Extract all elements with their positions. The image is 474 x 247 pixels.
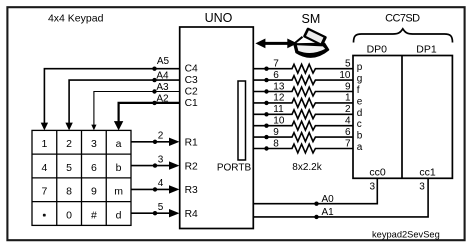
- svg-text:A3: A3: [156, 82, 169, 93]
- svg-text:7: 7: [345, 138, 351, 149]
- svg-text:8: 8: [273, 138, 279, 149]
- svg-text:10: 10: [273, 116, 285, 127]
- wire A0 (UNO to display cc0): [253, 178, 377, 206]
- svg-text:b: b: [116, 162, 122, 174]
- svg-text:0: 0: [66, 209, 72, 221]
- svg-text:a: a: [357, 142, 363, 153]
- svg-text:A5: A5: [157, 56, 170, 67]
- wire UNO pin7 / resistor 1 / display pin 5 (segment p): [253, 59, 353, 74]
- svg-text:DP1: DP1: [416, 43, 437, 55]
- wire A5 (UNO C4 to keypad column 1): [41, 56, 180, 130]
- wire 5 (keypad row 4 to UNO R4): [131, 202, 180, 217]
- svg-text:b: b: [357, 131, 363, 142]
- svg-text:5: 5: [66, 162, 72, 174]
- svg-text:5: 5: [158, 202, 164, 213]
- svg-text:5: 5: [345, 59, 351, 70]
- svg-text:A2: A2: [156, 94, 169, 105]
- svg-text:4: 4: [345, 116, 351, 127]
- wire 3 (keypad row 2 to UNO R2): [131, 154, 180, 169]
- svg-text:DP0: DP0: [367, 43, 388, 55]
- svg-text:C1: C1: [185, 98, 198, 109]
- display CC7SD box: [353, 56, 452, 179]
- svg-text:PORTB: PORTB: [217, 162, 252, 173]
- svg-text:6: 6: [91, 162, 97, 174]
- svg-text:7: 7: [273, 59, 279, 70]
- svg-text:3: 3: [158, 154, 164, 165]
- svg-text:9: 9: [273, 127, 279, 138]
- svg-text:UNO: UNO: [205, 11, 233, 25]
- svg-text:3: 3: [369, 182, 375, 193]
- wire 2 (keypad row 1 to UNO R1): [131, 131, 180, 146]
- svg-text:3: 3: [419, 182, 425, 193]
- brace over display: [354, 29, 453, 43]
- svg-text:m: m: [114, 186, 123, 198]
- svg-text:R2: R2: [185, 161, 198, 172]
- svg-text:1: 1: [41, 138, 47, 150]
- svg-text:A4: A4: [156, 71, 169, 82]
- svg-text:4: 4: [41, 162, 47, 174]
- svg-text:c: c: [357, 119, 362, 130]
- svg-text:d: d: [357, 108, 363, 119]
- svg-text:10: 10: [339, 70, 351, 81]
- svg-text:11: 11: [273, 104, 284, 115]
- serial monitor SM laptop icon screen: [303, 27, 327, 46]
- wire UNO pin10 / resistor 6 / display pin 4 (segment c): [253, 116, 353, 131]
- svg-text:C2: C2: [185, 87, 198, 98]
- wire UNO pin12 / resistor 4 / display pin 1 (segment e): [253, 93, 353, 108]
- svg-text:a: a: [116, 138, 122, 150]
- svg-text:2: 2: [158, 131, 164, 142]
- svg-text:A1: A1: [322, 207, 335, 218]
- svg-text:#: #: [91, 209, 97, 221]
- wire UNO pin9 / resistor 7 / display pin 6 (segment b): [253, 127, 353, 142]
- svg-text:1: 1: [345, 93, 351, 104]
- svg-text:R1: R1: [185, 138, 198, 149]
- svg-text:12: 12: [273, 93, 285, 104]
- svg-text:CC7SD: CC7SD: [385, 12, 420, 24]
- wire A1 (UNO to display cc1): [253, 178, 428, 219]
- wire A4 (UNO C3 to keypad column 2): [65, 71, 179, 131]
- display digit divider: [401, 56, 403, 179]
- svg-text:SM: SM: [302, 12, 321, 26]
- svg-text:6: 6: [273, 70, 279, 81]
- svg-text:6: 6: [345, 127, 351, 138]
- serial monitor SM laptop icon base: [294, 43, 329, 57]
- Arduino UNO U1 box: [180, 27, 254, 229]
- svg-text:8x2.2k: 8x2.2k: [292, 162, 322, 173]
- serial link double arrow UNO-SM: [255, 39, 297, 49]
- svg-text:C3: C3: [185, 75, 198, 86]
- svg-text:e: e: [357, 96, 363, 107]
- svg-text:7: 7: [41, 186, 47, 198]
- wire UNO pin8 / resistor 8 / display pin 7 (segment a): [253, 138, 353, 153]
- keypad KP1 key labels: [41, 138, 123, 221]
- svg-text:9: 9: [345, 81, 351, 92]
- svg-text:cc1: cc1: [419, 167, 436, 179]
- keypad KP1 4x4 grid: [32, 130, 131, 225]
- wire A3 (UNO C2 to keypad column 3): [91, 82, 179, 130]
- PORTB port block: [238, 81, 246, 160]
- svg-text:2: 2: [66, 138, 72, 150]
- svg-text:f: f: [357, 85, 360, 96]
- svg-text:13: 13: [273, 81, 285, 92]
- svg-text:keypad2SevSeg: keypad2SevSeg: [372, 229, 440, 239]
- wire A2 (UNO C1 to keypad column 4): [114, 94, 180, 131]
- svg-text:A0: A0: [322, 194, 335, 205]
- wire UNO pin11 / resistor 5 / display pin 2 (segment d): [253, 104, 353, 119]
- svg-text:p: p: [357, 62, 363, 73]
- svg-text:R3: R3: [185, 185, 198, 196]
- svg-text:R4: R4: [185, 209, 198, 220]
- svg-text:4: 4: [158, 178, 164, 189]
- svg-text:cc0: cc0: [369, 167, 386, 179]
- wire 4 (keypad row 3 to UNO R3): [131, 178, 180, 193]
- svg-text:4x4 Keypad: 4x4 Keypad: [48, 13, 104, 25]
- svg-text:2: 2: [345, 104, 351, 115]
- wire UNO pin13 / resistor 3 / display pin 9 (segment f): [253, 81, 353, 96]
- svg-text:8: 8: [66, 186, 72, 198]
- svg-text:C4: C4: [185, 64, 198, 75]
- wire UNO pin6 / resistor 2 / display pin 10 (segment g): [253, 70, 353, 85]
- svg-text:9: 9: [91, 186, 97, 198]
- svg-text:g: g: [357, 74, 363, 85]
- svg-text:3: 3: [91, 138, 97, 150]
- svg-text:d: d: [116, 209, 122, 221]
- keypad key label * (renders as small dot): [43, 214, 46, 217]
